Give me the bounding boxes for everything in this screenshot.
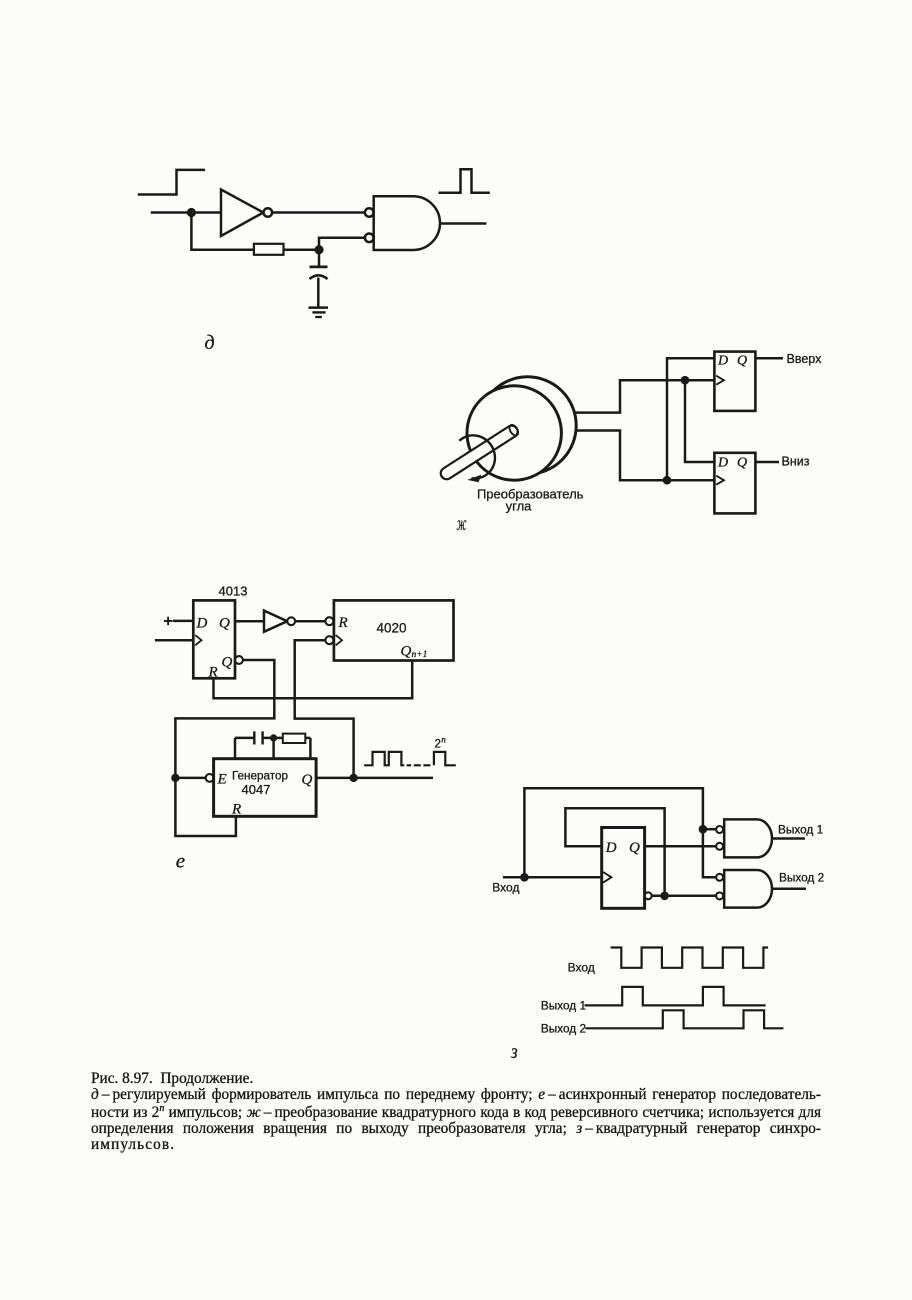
svg-text:4047: 4047 xyxy=(242,782,271,797)
svg-text:Q: Q xyxy=(629,840,640,856)
svg-text:ж: ж xyxy=(457,513,467,535)
svg-text:д: д xyxy=(205,332,215,354)
svg-text:R: R xyxy=(208,665,218,681)
svg-text:4020: 4020 xyxy=(376,621,406,636)
svg-text:Вход: Вход xyxy=(568,961,595,975)
svg-text:Q: Q xyxy=(401,644,412,660)
svg-text:угла: угла xyxy=(506,498,533,513)
svg-text:Вниз: Вниз xyxy=(782,455,810,469)
svg-text:n: n xyxy=(441,735,446,745)
svg-text:D: D xyxy=(605,840,617,856)
svg-text:D: D xyxy=(717,353,728,368)
svg-text:Q: Q xyxy=(737,353,747,368)
svg-text:Генератор: Генератор xyxy=(232,770,288,783)
svg-text:Выход 2: Выход 2 xyxy=(779,871,824,885)
svg-text:n+1: n+1 xyxy=(412,650,428,660)
svg-text:Вверх: Вверх xyxy=(787,352,823,366)
svg-text:Q: Q xyxy=(737,456,747,471)
svg-text:Q: Q xyxy=(302,772,313,788)
svg-text:Выход 1: Выход 1 xyxy=(778,823,823,837)
svg-text:Вход: Вход xyxy=(492,880,519,894)
svg-text:R: R xyxy=(338,615,348,631)
svg-text:е: е xyxy=(176,848,185,872)
svg-text:2: 2 xyxy=(435,739,441,751)
svg-text:R: R xyxy=(231,802,241,818)
svg-text:4013: 4013 xyxy=(219,584,248,599)
svg-text:з: з xyxy=(510,1041,518,1063)
svg-text:Выход 1: Выход 1 xyxy=(541,999,586,1013)
svg-text:D: D xyxy=(717,456,728,471)
svg-text:E: E xyxy=(217,772,227,788)
svg-text:Q: Q xyxy=(222,655,233,671)
svg-text:D: D xyxy=(196,616,208,632)
svg-text:Q: Q xyxy=(219,616,230,632)
svg-text:Выход 2: Выход 2 xyxy=(541,1022,586,1036)
